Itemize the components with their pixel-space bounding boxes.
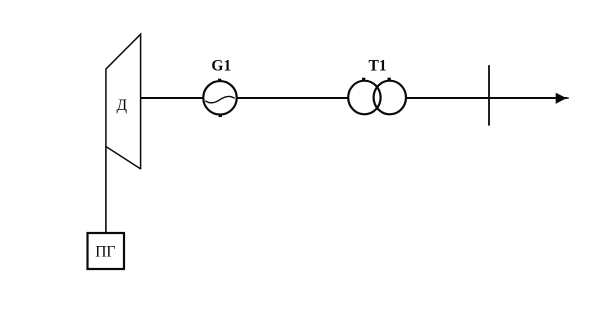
arrow tip stub bbox=[567, 97, 569, 99]
svg-text:Д: Д bbox=[117, 97, 128, 114]
svg-text:T1: T1 bbox=[369, 57, 387, 74]
wire G1 to transformer T1 bbox=[237, 97, 349, 99]
generator G1 top vertex nub bbox=[218, 79, 221, 81]
svg-text:ПГ: ПГ bbox=[95, 243, 115, 260]
transformer T1 primary top vertex nub bbox=[362, 78, 365, 80]
generator G1 sine wave bbox=[205, 96, 234, 102]
transformer T1 secondary winding circle bbox=[374, 81, 406, 115]
steam generator box ПГ bbox=[88, 233, 125, 269]
generator G1 bottom vertex nub bbox=[219, 115, 222, 117]
wire T1 to busbar and output arrow bbox=[407, 97, 567, 99]
wire turbine to steam generator ПГ bbox=[105, 147, 107, 233]
wire turbine to generator G1 bbox=[141, 97, 203, 99]
arrowhead bbox=[556, 93, 567, 104]
svg-text:G1: G1 bbox=[211, 57, 231, 74]
turbine (prime mover) Д trapezoid bbox=[106, 34, 141, 168]
transformer T1 secondary top vertex nub bbox=[388, 78, 391, 80]
busbar bbox=[488, 65, 490, 125]
transformer T1 primary winding circle bbox=[348, 81, 380, 115]
generator G1 circle bbox=[203, 81, 237, 115]
